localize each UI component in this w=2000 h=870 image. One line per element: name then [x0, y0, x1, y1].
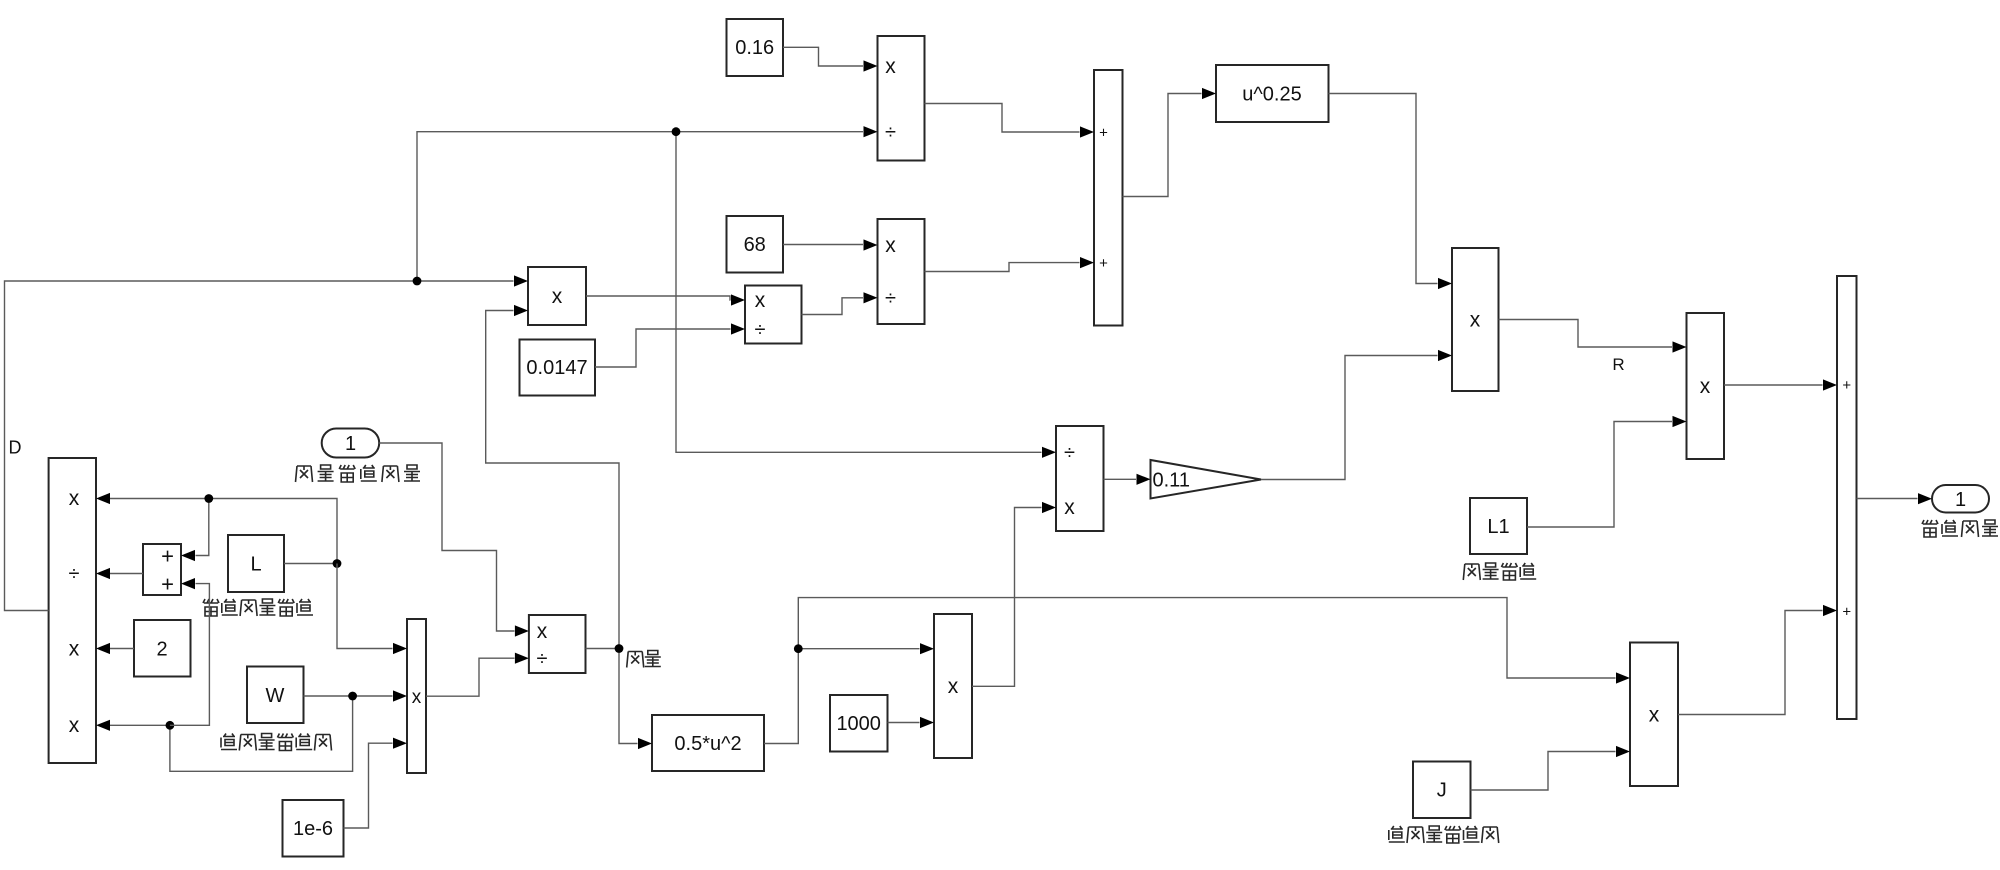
product block vD (x): [528, 267, 586, 325]
svg-text:x: x: [69, 487, 80, 510]
constant J: [1413, 762, 1471, 819]
junction at (208.8,498.5): [204, 494, 213, 503]
junction 风速 at (619,648.5): [615, 644, 624, 653]
svg-text:x: x: [948, 675, 959, 698]
wire 风速 up to vD.in2: [486, 305, 619, 649]
constant W: [247, 667, 304, 724]
svg-text:x: x: [537, 620, 548, 643]
svg-text:x: x: [69, 714, 80, 737]
product block R (x): [1452, 248, 1499, 391]
svg-text:0.0147: 0.0147: [526, 357, 587, 379]
wire D main: DivD out to vD.in1: [5, 275, 529, 610]
wire gain out to R-product in2: [1261, 350, 1452, 480]
label 风管截面长度: [203, 599, 313, 616]
svg-text:+: +: [161, 544, 174, 569]
svg-text:x: x: [885, 55, 896, 78]
wire into DivD port4: [96, 720, 170, 731]
label R (net name): [1612, 355, 1624, 374]
constant L1: [1470, 498, 1527, 554]
svg-text:1: 1: [345, 433, 356, 455]
wire divide out to gain 0.11: [1104, 474, 1151, 485]
wire SumS out to DivD port2: [96, 568, 143, 579]
wire R-product out to P-product in1: [1499, 320, 1687, 353]
svg-text:1: 1: [1955, 489, 1966, 511]
sum block Sum2 tall (+,+): [1837, 276, 1857, 719]
svg-text:+: +: [1099, 125, 1108, 142]
svg-text:0.16: 0.16: [735, 37, 774, 59]
label 局部阻力系数: [1389, 826, 1499, 843]
svg-text:+: +: [1099, 255, 1108, 272]
svg-text:x: x: [755, 289, 766, 312]
fcn block u^0.25: [1216, 65, 1329, 122]
svg-text:x: x: [1649, 704, 1660, 727]
sum block SumS (flipped, + +): [143, 544, 181, 597]
sum block Sum1 (+,+): [1094, 70, 1123, 326]
constant L: [228, 535, 284, 592]
label 风管截面宽度: [221, 734, 332, 751]
svg-text:L1: L1: [1487, 516, 1509, 538]
wire 风速 down to 0.5*u^2: [619, 649, 652, 750]
wire 1e-6 to Mux in3: [344, 738, 408, 828]
wire u^0.25 out to R-product in1: [1329, 94, 1453, 290]
wire velocity out (风速 net): [586, 648, 620, 650]
label D (net name): [9, 438, 22, 458]
svg-text:x: x: [412, 687, 422, 708]
constant 0.16: [727, 19, 784, 76]
wire PA out to Sum1 +: [925, 104, 1095, 138]
wire 2 out to DivD port3: [96, 643, 134, 654]
label 管道压降: [1922, 520, 1998, 537]
svg-text:÷: ÷: [69, 563, 80, 585]
wire J constant to J-product in2: [1471, 746, 1631, 790]
wire P-product out to Sum2 +1: [1724, 379, 1837, 390]
svg-text:2: 2: [156, 639, 167, 661]
product block PA (x,/): [878, 36, 925, 161]
wire W out to Mux in2: [304, 690, 408, 701]
svg-text:68: 68: [744, 234, 766, 256]
junction at (798.3,648.7): [794, 644, 803, 653]
wire 0.0147 to PC divide input: [595, 323, 745, 367]
constant 2: [134, 620, 191, 677]
svg-text:x: x: [69, 638, 80, 661]
junction D at (417,281): [413, 277, 422, 286]
svg-text:+: +: [1842, 604, 1851, 621]
svg-text:R: R: [1612, 355, 1624, 374]
gain triangle 0.11: [1151, 460, 1262, 499]
wire branch to q-product in1: [798, 643, 934, 654]
svg-text:D: D: [9, 438, 22, 458]
svg-text:+: +: [161, 572, 174, 597]
junction D at (676,131.7): [672, 127, 681, 136]
wire 68 to PB.x: [783, 239, 878, 250]
label 风管长度: [1463, 563, 1536, 580]
svg-text:x: x: [1470, 309, 1481, 332]
svg-text:x: x: [1064, 496, 1075, 519]
svg-text:L: L: [250, 554, 261, 576]
wire D branch up: to PA divide input: [417, 126, 878, 281]
svg-text:J: J: [1437, 780, 1447, 802]
svg-text:÷: ÷: [885, 288, 896, 310]
constant 0.0147: [520, 340, 596, 396]
svg-text:÷: ÷: [755, 319, 766, 341]
junction W at (352.6,696): [348, 692, 357, 701]
wire vD out to PC.x: [586, 294, 745, 305]
junction at (169.9,725.3): [166, 721, 175, 730]
svg-text:W: W: [266, 685, 285, 707]
wire input oval to velocity x input: [379, 443, 529, 637]
label 管道入口风量: [296, 465, 421, 482]
svg-text:+: +: [1842, 377, 1851, 394]
svg-text:1000: 1000: [836, 713, 881, 735]
divide block DivD (flipped, ports x,/,x,x): [49, 458, 96, 763]
wire J-product out to Sum2 +2: [1678, 605, 1837, 715]
wire L1 out to P-product in2: [1527, 416, 1687, 527]
wire 1000 to q-product in2: [888, 717, 935, 728]
svg-text:0.11: 0.11: [1153, 470, 1190, 492]
svg-text:0.5*u^2: 0.5*u^2: [674, 733, 741, 755]
svg-text:÷: ÷: [1064, 442, 1075, 464]
wire D branch down: to divide(q/D) top input: [676, 132, 1056, 458]
divide block (q/D) (/,x): [1056, 426, 1104, 531]
wire W loop down to DivD port4 net: [170, 696, 353, 771]
wire q-product out to divide(q/D) x input: [972, 502, 1056, 686]
junction L at (337,563.5): [333, 559, 342, 568]
svg-text:÷: ÷: [537, 648, 548, 670]
wire Mux out to velocity divide input: [426, 653, 529, 697]
label 风速: [627, 651, 661, 668]
wire Sum1 out to u^0.25: [1123, 88, 1217, 197]
wire L down to Mux in1: [337, 564, 407, 655]
constant 68: [727, 216, 784, 273]
wire Sum2 out to output oval: [1857, 493, 1933, 504]
wire PC out to PB divide input: [802, 292, 878, 314]
wire 0.16 to PA.x: [783, 47, 878, 71]
product block PC small (x,/): [745, 286, 802, 344]
constant 1000: [830, 695, 888, 752]
wire L out with junctions: [284, 563, 337, 565]
svg-text:x: x: [1700, 375, 1711, 398]
divide block velocity (x,/): [529, 615, 586, 673]
svg-text:x: x: [885, 234, 896, 257]
wire branch to SumS +2: [170, 578, 210, 725]
wire branch to SumS +1: [181, 499, 209, 562]
svg-text:÷: ÷: [885, 122, 896, 144]
wire PB out to Sum1 +: [925, 257, 1095, 272]
product block P (x): [1687, 313, 1725, 459]
fcn block 0.5*u^2: [652, 715, 764, 771]
output port oval 1 (管道压降): [1932, 485, 1989, 513]
product block PB (x,/): [878, 219, 925, 324]
constant 1e-6: [283, 800, 344, 857]
product block J (x): [1630, 643, 1678, 787]
wire 0.5*u^2 out: up, long run right, down to J-product in1: [764, 598, 1630, 744]
svg-text:1e-6: 1e-6: [293, 818, 333, 840]
product Mux-like block (L*W*1e-6): [407, 619, 426, 773]
input port oval 1 (管道入口风量): [322, 429, 380, 458]
svg-text:x: x: [552, 285, 563, 308]
product block q (x): [934, 614, 972, 758]
wire L up into DivD port1: [96, 493, 337, 564]
svg-text:u^0.25: u^0.25: [1242, 84, 1301, 106]
